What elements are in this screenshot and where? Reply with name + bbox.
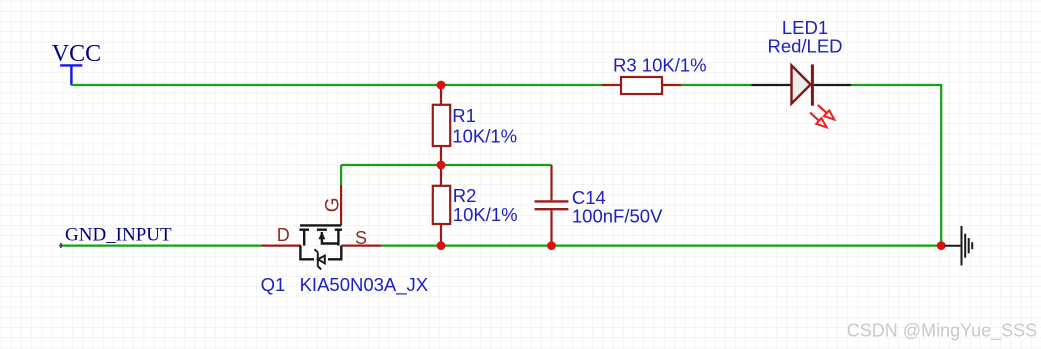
capacitor C14 bottom lead [550,210,552,245]
transistor Q1 drain pin wire [261,245,301,247]
LED1 diode [792,64,813,105]
power symbol VCC [60,65,82,85]
junction node top [437,81,446,90]
transistor Q1 body diode [314,249,324,269]
LED1 arrows [810,105,834,127]
svg-text:R3 10K/1%: R3 10K/1% [613,55,707,76]
svg-text:10K/1%: 10K/1% [453,204,518,225]
wire top green between R3 and LED [681,84,751,86]
ground symbol [945,226,973,265]
svg-text:KIA50N03A_JX: KIA50N03A_JX [300,274,429,296]
resistor R3 [621,77,662,94]
channel bars [299,228,342,230]
resistor R1 leads [440,85,442,165]
right leg [337,230,339,246]
resistor R2 [433,186,450,224]
port marker GND_INPUT [59,243,63,248]
transistor Q1 gate pin wire [340,185,342,226]
svg-text:R2: R2 [453,185,477,206]
capacitor C14 top lead [550,165,552,200]
svg-text:VCC: VCC [52,41,101,67]
wire gate vertical green part [340,165,342,185]
wire top green LED to right corner and down [851,85,941,246]
LED1 pins [752,84,852,86]
svg-text:G: G [322,197,343,212]
svg-text:100nF/50V: 100nF/50V [572,205,663,226]
wire bottom green after source [381,245,941,247]
wire top horizontal [71,84,601,86]
wire middle horizontal [341,164,551,166]
gate plate [300,224,341,226]
resistor R3 leads [601,84,681,86]
body leg with connection [322,232,339,244]
svg-text:Red/LED: Red/LED [767,36,842,57]
svg-text:10K/1%: 10K/1% [452,126,517,147]
svg-text:D: D [277,225,290,245]
svg-text:CSDN @MingYue_SSS: CSDN @MingYue_SSS [847,320,1037,341]
junction node middle [437,161,446,170]
resistor R2 leads [440,165,442,246]
junction node C14 bottom [547,241,556,250]
resistor R1 [433,105,450,146]
junction node right [937,241,946,250]
transistor Q1 body arrow [318,232,325,240]
svg-text:R1: R1 [452,105,476,126]
transistor Q1 source pin wire [341,245,381,247]
transistor Q1 MOSFET body [299,225,342,259]
svg-text:GND_INPUT: GND_INPUT [65,224,172,245]
svg-text:S: S [355,228,367,248]
svg-text:Q1: Q1 [261,274,286,295]
drain leg [303,230,305,246]
junction node R2 bottom [437,241,446,250]
wire bottom horizontal left green [62,245,262,247]
capacitor C14 plates [535,201,569,209]
body box with diode bottom [300,246,341,260]
